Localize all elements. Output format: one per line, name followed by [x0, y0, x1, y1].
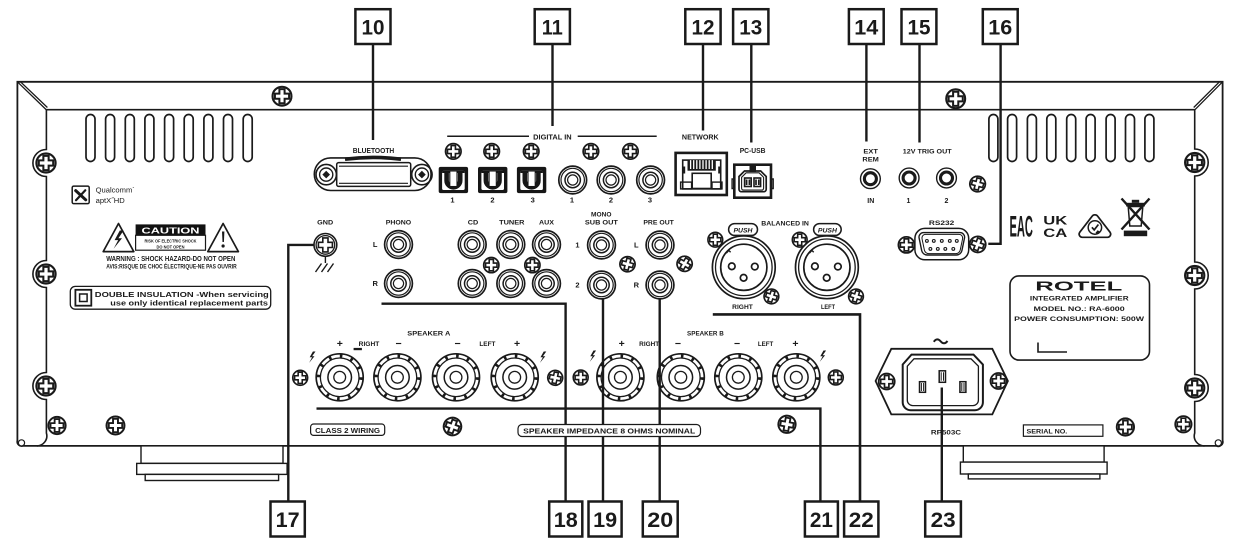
svg-text:18: 18 [554, 508, 578, 532]
push tab left xlr [814, 224, 842, 236]
svg-text:LEFT: LEFT [821, 304, 835, 311]
screw speaker a left [293, 370, 308, 385]
ground symbol [316, 256, 334, 272]
foot right [960, 446, 1107, 479]
svg-text:BALANCED IN: BALANCED IN [761, 220, 809, 227]
callout 22 [844, 502, 878, 537]
AC pin right [960, 382, 966, 393]
12v trig out jack 2 [937, 168, 957, 188]
screw speaker b left [573, 370, 588, 385]
phono L jack [385, 231, 413, 259]
class 2 wiring label [311, 424, 385, 435]
svg-text:RIGHT: RIGHT [639, 341, 659, 348]
svg-text:ROTEL: ROTEL [1035, 279, 1122, 294]
svg-text:SERIAL NO.: SERIAL NO. [1027, 429, 1068, 436]
double insulation box [70, 286, 270, 309]
coax in 3 [637, 166, 665, 194]
panel screw bottom-left b [107, 417, 125, 435]
caution black banner [136, 224, 206, 235]
push tab right xlr [729, 224, 758, 236]
edge screw top-right [946, 89, 965, 108]
optical in 2 [478, 167, 507, 193]
screw xlr right b [762, 287, 781, 306]
svg-text:1: 1 [907, 198, 911, 205]
svg-text:1: 1 [575, 241, 579, 250]
svg-text:2: 2 [490, 196, 494, 205]
svg-text:PRE OUT: PRE OUT [643, 220, 674, 227]
screw rs232 left [898, 237, 914, 253]
svg-text:IN: IN [867, 198, 874, 205]
binding post b right+ [597, 354, 644, 401]
binding post a left+ [491, 354, 538, 401]
svg-text:PC-USB: PC-USB [740, 148, 766, 155]
tuner L jack [497, 231, 525, 259]
edge screw left 1 [36, 153, 55, 172]
callout 13 [733, 9, 768, 44]
svg-text:2: 2 [575, 281, 579, 290]
svg-text:−: − [396, 338, 402, 350]
leader 11 [551, 44, 553, 126]
label ~ AC [934, 339, 948, 343]
coax in 2 [597, 166, 625, 194]
svg-text:TUNER: TUNER [499, 220, 525, 227]
screw analog 2 [525, 258, 540, 273]
screw digital 2 [484, 144, 500, 160]
svg-text:RS232: RS232 [929, 220, 955, 227]
svg-text:LEFT: LEFT [758, 341, 773, 348]
callout 19 [589, 502, 622, 537]
AC pin left [920, 382, 926, 393]
svg-text:SPEAKER IMPEDANCE 8 OHMS NOMIN: SPEAKER IMPEDANCE 8 OHMS NOMINAL [523, 427, 696, 436]
serial no label [1023, 425, 1103, 436]
svg-text:+: + [337, 338, 343, 350]
cd R jack [458, 270, 486, 298]
label DIGITAL IN with bracket [447, 134, 657, 141]
edge screw right 1 [1185, 153, 1204, 172]
svg-text:R: R [372, 279, 378, 288]
svg-text:−: − [675, 338, 681, 350]
svg-text:17: 17 [276, 508, 300, 532]
callout 16 [983, 9, 1018, 44]
callout 10 [355, 9, 390, 44]
panel screw bottom-center [441, 415, 464, 438]
svg-text:DOUBLE INSULATION -When servic: DOUBLE INSULATION -When servicing [95, 290, 269, 299]
leader 20 [659, 300, 661, 502]
svg-text:20: 20 [647, 508, 673, 532]
svg-text:MODEL NO.: RA-6000: MODEL NO.: RA-6000 [1034, 306, 1126, 313]
chassis corner bumper right [1215, 440, 1221, 446]
svg-text:1: 1 [450, 196, 454, 205]
screw digital 3 [523, 144, 539, 160]
svg-text:REM: REM [862, 157, 879, 164]
bluetooth antenna connector [314, 157, 432, 190]
binding post b right- [657, 354, 704, 401]
panel screw bottom speaker-b [777, 414, 797, 434]
callout 11 [535, 9, 570, 44]
caution triangle exclamation [208, 224, 239, 252]
svg-text:19: 19 [593, 508, 617, 532]
lightning bolt a left [309, 352, 315, 363]
caution triangle lightning [103, 224, 134, 252]
leader 17 [288, 245, 314, 502]
binding post b left+ [773, 354, 820, 401]
svg-text:AUX: AUX [539, 220, 555, 227]
svg-text:16: 16 [988, 15, 1012, 39]
AC inlet flange [876, 349, 1008, 415]
WEEE crossed-out bin [1122, 199, 1150, 237]
optical in 3 [517, 167, 546, 193]
12v trig out jack 1 [899, 168, 919, 188]
phono R jack [385, 270, 413, 298]
svg-text:PHONO: PHONO [386, 220, 411, 227]
edge screw right 2 [1185, 266, 1204, 285]
svg-text:22: 22 [849, 508, 874, 532]
optical in 1 [439, 167, 468, 193]
svg-text:INTEGRATED AMPLIFIER: INTEGRATED AMPLIFIER [1030, 295, 1129, 302]
svg-text:+: + [514, 338, 520, 350]
leader 13 [750, 44, 752, 143]
chassis corner bumper left [18, 440, 24, 446]
caution risk box [136, 235, 206, 250]
screw AC left [879, 374, 895, 390]
chassis inner top edge [46, 109, 1194, 111]
small dash artifact [354, 348, 362, 350]
screw analog 4 [674, 253, 695, 274]
screw xlr right a [708, 232, 723, 247]
xlr balanced in right [712, 236, 775, 299]
chassis inner left edge with screw notches [33, 110, 47, 446]
vent slots right [989, 115, 1154, 162]
svg-text:RP503C: RP503C [931, 430, 961, 437]
chassis inner right edge with screw notches [1194, 110, 1208, 446]
svg-text:2: 2 [945, 198, 949, 205]
AC inlet socket [903, 355, 983, 411]
screw analog 1 [484, 258, 499, 273]
leader 22 [713, 314, 860, 501]
pc-usb type B jack [732, 165, 773, 198]
svg-text:+: + [792, 338, 798, 350]
svg-text:13: 13 [739, 15, 762, 39]
sub out 1 jack [588, 231, 616, 259]
svg-text:aptX˝HD: aptX˝HD [96, 196, 126, 205]
leader 16 [988, 44, 1000, 244]
svg-text:1: 1 [570, 196, 574, 205]
callout 14 [849, 9, 884, 44]
qualcomm aptX logo box [72, 186, 89, 204]
coax in 1 [559, 166, 587, 194]
panel screw bottom-right b [1175, 416, 1191, 432]
svg-text:+: + [619, 338, 625, 350]
svg-text:CAUTION: CAUTION [142, 225, 200, 235]
aux L jack [533, 231, 561, 259]
svg-text:CLASS 2 WIRING: CLASS 2 WIRING [315, 426, 380, 435]
svg-text:MONO: MONO [591, 211, 612, 218]
screw xlr left a [792, 232, 807, 247]
cd L jack [458, 231, 486, 259]
svg-text:POWER CONSUMPTION: 500W: POWER CONSUMPTION: 500W [1014, 316, 1145, 323]
callout 15 [902, 9, 937, 44]
panel screw bottom-right a [1117, 418, 1134, 435]
gnd terminal [314, 234, 337, 257]
rotel nameplate box [1010, 276, 1150, 360]
pre out R jack [646, 271, 674, 299]
callout 23 [925, 502, 961, 537]
xlr balanced in left [796, 236, 859, 299]
callout 12 [685, 9, 720, 44]
svg-text:12V TRIG OUT: 12V TRIG OUT [903, 148, 952, 155]
edge screw right 3 [1185, 378, 1204, 397]
foot left [137, 446, 287, 481]
screw digital 4 [583, 144, 599, 160]
binding post a right- [374, 354, 421, 401]
leader 21 [317, 409, 821, 502]
svg-text:GND: GND [317, 220, 333, 227]
svg-text:BLUETOOTH: BLUETOOTH [353, 148, 395, 155]
leader 18 [382, 304, 566, 502]
svg-text:L: L [373, 240, 378, 249]
svg-text:CA: CA [1043, 226, 1067, 240]
ext rem jack [861, 169, 881, 189]
screw analog 3 [618, 255, 637, 274]
chassis outer outline [17, 82, 1223, 446]
svg-text:AVIS:RISQUE DE CHOC ÉLECTRIQUE: AVIS:RISQUE DE CHOC ÉLECTRIQUE-NE PAS OU… [106, 263, 237, 271]
sub out 2 jack [588, 271, 616, 299]
rs232 DB9 connector [915, 228, 969, 259]
screw xlr left b [847, 287, 866, 306]
binding post a left- [433, 354, 480, 401]
svg-text:RIGHT: RIGHT [732, 304, 753, 311]
leader 14 [865, 44, 867, 142]
screw digital 1 [446, 144, 462, 160]
svg-text:3: 3 [648, 196, 652, 205]
svg-text:PUSH: PUSH [818, 227, 838, 234]
screw AC right [991, 373, 1007, 389]
chassis top-left mitre [18, 82, 48, 110]
svg-text:Qualcomm´: Qualcomm´ [96, 185, 135, 194]
svg-text:EXT: EXT [863, 148, 878, 155]
svg-text:14: 14 [854, 15, 878, 39]
screw digital 5 [623, 144, 639, 160]
svg-text:DO NOT OPEN: DO NOT OPEN [157, 245, 186, 250]
leader 12 [702, 44, 704, 131]
svg-text:21: 21 [810, 508, 833, 532]
edge screw left 2 [36, 264, 55, 283]
lightning bolt b right [820, 351, 826, 362]
svg-text:NETWORK: NETWORK [682, 135, 719, 142]
UKCA mark [1043, 214, 1067, 241]
svg-text:use only identical replacement: use only identical replacement parts [110, 299, 268, 308]
callout 18 [549, 502, 582, 537]
panel screw bottom-left a [48, 417, 65, 434]
pre out L jack [646, 231, 674, 259]
svg-text:EAC: EAC [1009, 211, 1033, 244]
svg-text:15: 15 [908, 15, 931, 39]
screw speaker b right [828, 370, 843, 385]
callout 17 [271, 502, 305, 537]
leader 23 [941, 388, 943, 502]
callout 21 [805, 502, 838, 537]
lightning bolt a right [540, 352, 546, 363]
edge screw top-left [273, 87, 292, 106]
svg-text:2: 2 [609, 196, 613, 205]
leader 10 [372, 44, 374, 140]
screw speaker a right [546, 369, 564, 387]
svg-text:RIGHT: RIGHT [359, 341, 380, 348]
svg-text:PUSH: PUSH [734, 227, 754, 234]
svg-text:11: 11 [542, 15, 563, 39]
svg-text:DIGITAL IN: DIGITAL IN [533, 134, 572, 141]
svg-text:R: R [634, 281, 640, 290]
svg-text:LEFT: LEFT [479, 341, 495, 348]
binding post b left- [715, 354, 762, 401]
AC pin earth [939, 371, 945, 383]
screw rs232 right [967, 234, 988, 255]
svg-text:L: L [634, 241, 639, 250]
leader 19 [602, 300, 604, 502]
svg-text:RISK OF ELECTRIC SHOCK: RISK OF ELECTRIC SHOCK [145, 239, 198, 244]
RCM mark [1079, 215, 1111, 238]
svg-text:SPEAKER B: SPEAKER B [687, 330, 724, 337]
binding post a right+ [316, 354, 363, 401]
lightning bolt b left [590, 351, 596, 362]
screw right of trig [968, 174, 987, 193]
edge screw left 3 [36, 376, 55, 395]
callout 20 [643, 502, 678, 537]
svg-text:SUB OUT: SUB OUT [585, 220, 618, 227]
tuner R jack [497, 270, 525, 298]
chassis top-right mitre [1194, 82, 1223, 110]
leader 15 [918, 44, 920, 143]
svg-text:3: 3 [531, 196, 535, 205]
svg-text:−: − [455, 338, 461, 350]
speaker impedance label [518, 425, 701, 437]
svg-text:CD: CD [468, 220, 479, 227]
svg-text:WARNING : SHOCK HAZARD-DO NOT: WARNING : SHOCK HAZARD-DO NOT OPEN [106, 254, 235, 263]
network RJ45 jack [676, 153, 727, 195]
vent slots left [86, 115, 252, 162]
svg-text:SPEAKER A: SPEAKER A [407, 330, 450, 337]
svg-text:12: 12 [692, 15, 715, 39]
svg-text:23: 23 [931, 508, 956, 532]
svg-text:10: 10 [362, 15, 385, 39]
aux R jack [533, 270, 561, 298]
svg-text:−: − [734, 338, 740, 350]
